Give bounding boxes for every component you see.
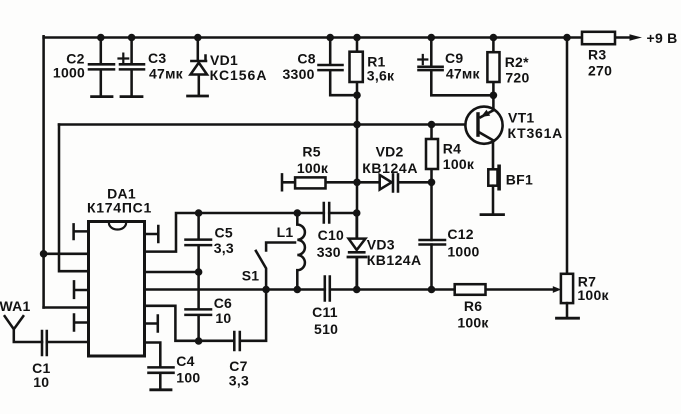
label S1 bbox=[242, 268, 260, 284]
svg-text:VD1: VD1 bbox=[210, 52, 238, 68]
svg-text:C5: C5 bbox=[215, 225, 233, 241]
label R4 bbox=[443, 141, 475, 172]
node +9V arrow bbox=[630, 34, 643, 40]
node C2 top bbox=[97, 34, 105, 42]
svg-text:WA1: WA1 bbox=[0, 298, 31, 314]
wire pin2R riser to tank rail bbox=[145, 213, 357, 252]
label R1 bbox=[367, 53, 395, 83]
ground C4 bbox=[151, 388, 171, 391]
svg-text:VD3: VD3 bbox=[367, 237, 395, 253]
svg-text:1000: 1000 bbox=[53, 65, 85, 81]
ground C3 bbox=[121, 95, 142, 98]
label C4 bbox=[176, 353, 200, 385]
label VT1 bbox=[508, 110, 563, 141]
label VD2 bbox=[362, 143, 418, 175]
transistor VT1 bbox=[465, 107, 502, 170]
svg-text:1000: 1000 bbox=[447, 244, 479, 260]
zener VD1 bbox=[191, 38, 208, 96]
wire pin2L to left bus bbox=[44, 253, 89, 256]
node base line x357 bbox=[353, 121, 361, 129]
svg-text:3,3: 3,3 bbox=[214, 240, 234, 256]
ground BF1 bbox=[481, 213, 504, 216]
node R2 top bbox=[490, 34, 498, 42]
node R4 top bbox=[428, 121, 436, 129]
varicap VD2 bbox=[357, 174, 432, 191]
svg-text:10: 10 bbox=[215, 310, 231, 326]
wire pin5R riser bbox=[145, 306, 199, 341]
svg-text:К174ПС1: К174ПС1 bbox=[87, 200, 152, 216]
switch S1 bbox=[256, 243, 295, 290]
label R2 bbox=[505, 54, 530, 86]
svg-text:100к: 100к bbox=[457, 315, 489, 331]
svg-text:C3: C3 bbox=[148, 50, 166, 66]
capacitor C8 bbox=[319, 38, 358, 96]
capacitor C7 bbox=[199, 290, 267, 351]
svg-text:100к: 100к bbox=[443, 156, 475, 172]
capacitor C2 bbox=[89, 38, 114, 96]
capacitor C9 bbox=[418, 38, 493, 96]
svg-text:R6: R6 bbox=[464, 298, 482, 314]
ground C2 bbox=[92, 95, 112, 98]
node C12 bottom bbox=[428, 286, 436, 294]
wire left bus bbox=[42, 36, 45, 307]
wire pin3R bbox=[145, 271, 199, 274]
wire pin7R to C4 bbox=[145, 343, 161, 367]
wire VT1 base line bbox=[59, 123, 476, 126]
svg-text:100: 100 bbox=[176, 369, 200, 385]
wire R4 column bbox=[430, 125, 433, 290]
resistor R3 bbox=[582, 32, 615, 44]
wire R2 branch bbox=[492, 38, 495, 111]
svg-text:R3: R3 bbox=[588, 47, 606, 63]
svg-text:3,6к: 3,6к bbox=[367, 67, 395, 83]
svg-text:КВ124А: КВ124А bbox=[367, 252, 422, 268]
svg-text:R4: R4 bbox=[443, 141, 461, 157]
label C2 bbox=[53, 50, 85, 80]
label C10 bbox=[317, 227, 344, 260]
wire pin3L riser bbox=[59, 125, 89, 272]
label R3 bbox=[588, 47, 612, 79]
capacitor C5 bbox=[186, 213, 212, 272]
node L1 top bbox=[294, 209, 302, 217]
capacitor C4 bbox=[149, 367, 174, 388]
pin DA1 right nc2 bbox=[145, 316, 158, 332]
node C5 top bbox=[195, 209, 203, 217]
node S1 pivot bbox=[262, 286, 270, 294]
node C8 top bbox=[326, 34, 334, 42]
svg-text:C8: C8 bbox=[297, 50, 315, 66]
svg-text:C10: C10 bbox=[318, 227, 344, 243]
svg-text:3300: 3300 bbox=[283, 66, 315, 82]
capacitor C12 bbox=[420, 240, 445, 245]
capacitor C1 bbox=[42, 331, 47, 355]
svg-text:510: 510 bbox=[314, 321, 338, 337]
svg-text:47мк: 47мк bbox=[149, 65, 184, 81]
IC DA1 body bbox=[89, 222, 145, 357]
label L1 bbox=[277, 224, 294, 240]
svg-text:КТ361А: КТ361А bbox=[508, 125, 563, 141]
node R1/C8 bottom bbox=[353, 91, 361, 99]
node R7 wiper arrow bbox=[553, 286, 561, 293]
node R7 column top bbox=[563, 34, 571, 42]
resistor R4 bbox=[426, 139, 438, 169]
antenna WA1 bbox=[5, 316, 42, 342]
resistor R6 bbox=[455, 284, 486, 295]
svg-text:C6: C6 bbox=[214, 295, 232, 311]
label C9 bbox=[445, 50, 481, 81]
pin DA1 right nc1 bbox=[145, 226, 159, 242]
resistor R5 bbox=[282, 174, 357, 190]
label C5 bbox=[214, 225, 234, 256]
pin DA1 left nc1 bbox=[74, 224, 89, 239]
label C8 bbox=[283, 50, 316, 81]
pin DA1 left nc2 bbox=[74, 281, 89, 297]
label DA1 bbox=[87, 186, 152, 216]
node C6 bottom bbox=[195, 337, 203, 345]
svg-text:10: 10 bbox=[33, 374, 49, 390]
svg-text:КВ124А: КВ124А bbox=[362, 160, 418, 176]
sounder BF1 bbox=[488, 165, 501, 214]
varicap VD3 bbox=[348, 213, 366, 290]
svg-text:L1: L1 bbox=[277, 224, 294, 240]
label VD3 bbox=[367, 237, 422, 269]
node R2/C9 bottom emitter bbox=[490, 92, 498, 100]
label +9V bbox=[647, 30, 678, 46]
svg-text:720: 720 bbox=[505, 70, 529, 86]
svg-text:270: 270 bbox=[588, 63, 612, 79]
node C3 top bbox=[128, 34, 136, 42]
svg-text:КС156А: КС156А bbox=[210, 67, 267, 83]
capacitor C11 bbox=[325, 277, 330, 301]
svg-text:330: 330 bbox=[317, 244, 341, 260]
svg-text:C12: C12 bbox=[447, 226, 473, 242]
wire R7 column bbox=[566, 38, 569, 274]
inductor L1 bbox=[297, 213, 305, 290]
label R6 bbox=[457, 298, 489, 331]
label WA1 bbox=[0, 298, 31, 314]
node VD3 bottom bbox=[353, 286, 361, 294]
label R7 bbox=[577, 274, 609, 304]
node R1 top bbox=[353, 34, 361, 42]
node junction left bus bbox=[40, 250, 48, 258]
label C11 bbox=[312, 304, 338, 337]
svg-text:C9: C9 bbox=[445, 50, 463, 66]
capacitor C10 bbox=[324, 203, 329, 223]
label C3 bbox=[148, 50, 184, 81]
svg-text:C11: C11 bbox=[312, 304, 338, 320]
svg-text:C4: C4 bbox=[176, 353, 194, 369]
svg-text:R2*: R2* bbox=[505, 54, 529, 70]
svg-text:47мк: 47мк bbox=[446, 65, 481, 81]
svg-text:R5: R5 bbox=[302, 144, 320, 160]
pin DA1 left input bbox=[47, 341, 89, 344]
label C12 bbox=[447, 226, 479, 260]
label VD1 bbox=[210, 52, 267, 83]
pin DA1 left nc3 bbox=[74, 315, 89, 331]
svg-text:BF1: BF1 bbox=[506, 172, 533, 188]
resistor R2 bbox=[487, 52, 499, 82]
svg-text:S1: S1 bbox=[242, 268, 260, 284]
node L1 bottom bbox=[294, 286, 302, 294]
node R5/VD2 x357 bbox=[353, 179, 361, 187]
svg-text:VD2: VD2 bbox=[376, 143, 404, 159]
node C5/C6 middle bbox=[195, 268, 203, 276]
svg-text:VT1: VT1 bbox=[508, 110, 534, 126]
svg-text:100к: 100к bbox=[297, 160, 329, 176]
wire pin4R output line bbox=[145, 288, 555, 291]
label C7 bbox=[229, 358, 249, 389]
node VD1 top bbox=[194, 34, 202, 42]
resistor R1 bbox=[350, 52, 363, 82]
node VD3 top bbox=[353, 209, 361, 217]
label R5 bbox=[297, 144, 329, 176]
node VD2/R4 bottom bbox=[428, 179, 436, 187]
label BF1 bbox=[506, 172, 533, 188]
capacitor C3 bbox=[119, 38, 145, 96]
svg-text:3,3: 3,3 bbox=[229, 373, 249, 389]
label C6 bbox=[214, 295, 232, 326]
svg-text:+9 В: +9 В bbox=[647, 30, 678, 46]
label C1 bbox=[32, 360, 50, 390]
potentiometer R7 bbox=[561, 274, 573, 318]
wire top +9V rail bbox=[44, 36, 633, 39]
node C9 top bbox=[428, 34, 436, 42]
wire pin5L to left bus bbox=[44, 306, 89, 309]
ground R7 bbox=[557, 317, 579, 320]
capacitor C6 bbox=[186, 272, 212, 341]
ground VD1 bbox=[188, 95, 208, 98]
wire R1 column bbox=[356, 38, 359, 290]
svg-text:100к: 100к bbox=[577, 287, 609, 303]
